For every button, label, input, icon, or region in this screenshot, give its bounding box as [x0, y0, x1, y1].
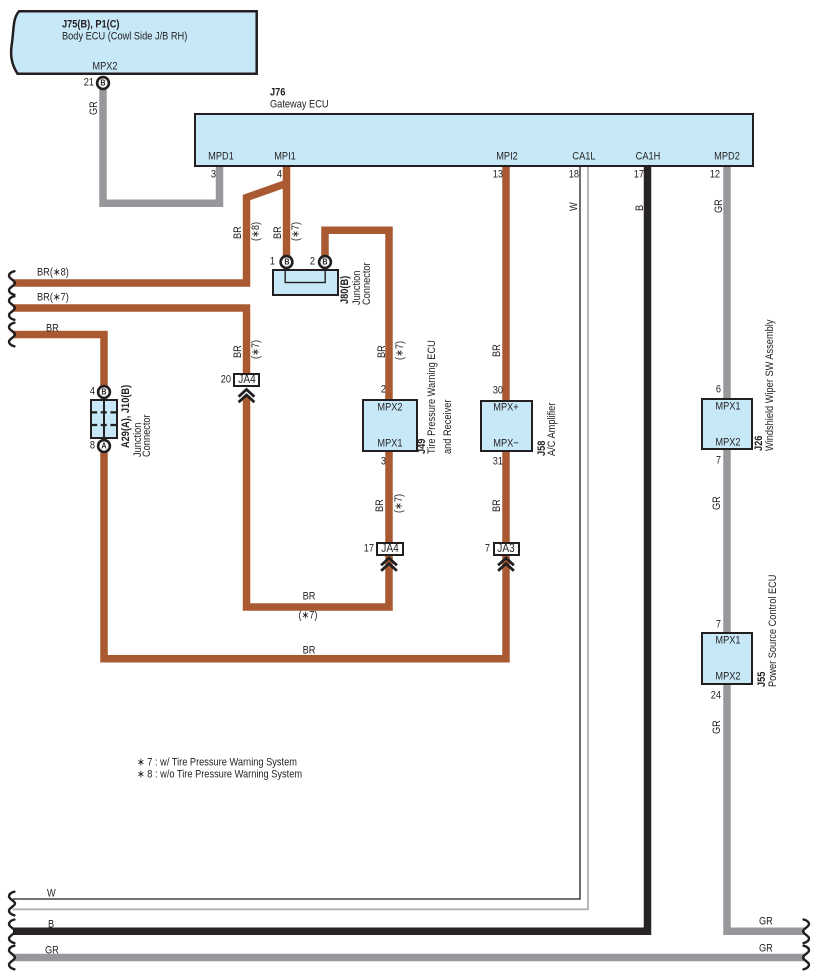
label GR rot mid	[712, 496, 723, 510]
label J58	[537, 440, 548, 455]
label (*8) rot	[251, 222, 262, 241]
label J76 pin 13	[493, 169, 503, 180]
wire B: J76 CA1H pin 17 to left edge	[13, 166, 648, 931]
letter B in pin 4 circle	[101, 387, 106, 398]
label BR	[46, 323, 59, 334]
pin 8 (A) of A29/J10	[98, 440, 110, 452]
label J76 terminal CA1L	[572, 151, 595, 162]
label J55	[757, 672, 768, 687]
label J49 MPX1	[377, 438, 402, 449]
label J76 pin 3	[210, 169, 215, 180]
label pin 24 J55	[711, 690, 721, 701]
label BR rot above JA4 20	[233, 345, 244, 358]
chevron below JA4 (20)	[239, 390, 255, 403]
ECU box J76 Gateway ECU	[194, 113, 754, 167]
pin 1 (B) of J80	[281, 256, 293, 268]
label JA4 (17)	[381, 543, 398, 555]
label J76	[270, 88, 285, 99]
wire W outline black: J76 CA1L pin 18 to left edge	[13, 166, 580, 899]
ECU block J75(B), P1(C) Body ECU (Cowl Side J/B RH)	[11, 11, 257, 73]
label W bottom	[47, 889, 56, 900]
label J55 MPX2	[715, 671, 740, 682]
ECU box J26 Windshield Wiper SW Assembly	[701, 398, 753, 450]
label BR loop JA4	[302, 592, 315, 603]
label pin 7 J55	[716, 619, 721, 630]
label BR(*8)	[37, 268, 69, 279]
label B bottom	[48, 919, 54, 930]
label (*7) loop JA4	[298, 611, 317, 622]
label pin 8	[90, 441, 95, 452]
wire BR(*7): left edge to JA4 (20)	[13, 308, 247, 375]
label BR rot pin13-J58	[492, 344, 503, 357]
label J76 pin 12	[709, 169, 719, 180]
label J75 title	[62, 20, 120, 31]
label J26	[754, 436, 765, 451]
label J26 MPX1	[715, 401, 740, 412]
pin 2 (B) of J80	[319, 256, 331, 268]
label JA3 (7)	[498, 543, 515, 555]
label pin 2 J49	[381, 385, 386, 396]
label J76 pin 18	[569, 169, 579, 180]
label (*7) rot	[291, 222, 302, 241]
note *7	[137, 757, 297, 768]
wire BR: J76 MPI2 pin 13 to J58 MPX+ pin 30	[502, 166, 510, 402]
label pin 21	[84, 78, 94, 89]
letter B in pin 21 circle	[100, 78, 105, 89]
label J76 terminal MPD2	[714, 151, 740, 162]
ECU box J49 Tire Pressure Warning ECU and Receiver	[362, 399, 418, 452]
ECU box J55 Power Source Control ECU	[701, 632, 754, 685]
letter B in pin 2 circle	[322, 257, 327, 268]
label J55 name	[768, 575, 779, 687]
wire BR: J49 MPX1 pin 3 to JA4 (17)	[385, 450, 393, 544]
label (*7) rot J80-J49	[395, 341, 406, 360]
label BR rot (*7 main)	[273, 226, 284, 239]
label J58 MPX-	[494, 438, 519, 449]
label BR loop JA3	[302, 645, 315, 656]
wire BR: left edge to A29/J10 pin 4	[13, 335, 104, 388]
note *8	[137, 770, 302, 781]
label J26 MPX2	[715, 437, 740, 448]
label J80 Connector	[362, 262, 373, 305]
chevron below JA3 (7)	[498, 558, 514, 571]
label BR(*7)	[37, 293, 69, 304]
wire BR: J80 pin 2 to J49 MPX2 pin 2	[325, 230, 389, 401]
label BR rot J49-JA4	[375, 499, 386, 512]
label J76 terminal CA1H	[636, 151, 661, 162]
label pin 17	[364, 544, 374, 555]
label W rot	[569, 202, 580, 211]
torn end W left	[9, 892, 15, 916]
label pin 6 J26	[716, 385, 721, 396]
pin 21 (B) of J75	[97, 77, 109, 89]
label J26 name	[765, 320, 776, 451]
letter A in pin 8 circle	[101, 441, 106, 452]
label (*7) rot above JA4 20	[251, 340, 262, 359]
wire GR: J75 pin 21 to J76 MPD1 pin 3	[103, 89, 220, 203]
label J75 MPX2	[92, 61, 117, 72]
label pin 2	[310, 257, 315, 268]
label J58 name	[547, 402, 558, 455]
label A29 Connector	[142, 414, 153, 457]
junction block JA4 (pin 20)	[233, 373, 260, 387]
torn end BR left	[9, 323, 15, 347]
label J76 pin 4	[276, 169, 281, 180]
junction connector A29(A) J10(B)	[90, 399, 118, 439]
wire GR: bottom full width	[13, 954, 805, 962]
label J49 MPX2	[377, 402, 402, 413]
label J80(B)	[340, 276, 351, 304]
torn end BR(*7) left	[9, 296, 15, 320]
label GR on J75 wire	[89, 101, 100, 115]
label J76 terminal MPI1	[274, 151, 296, 162]
J80 inner notch	[283, 270, 333, 290]
A29/J10 inner grid	[87, 397, 121, 443]
label GR rot top	[714, 199, 725, 213]
label BR rot J80-J49	[377, 345, 388, 358]
label J55 MPX1	[715, 636, 740, 647]
label pin 3 J49	[381, 456, 386, 467]
junction block JA4 (pin 17)	[376, 542, 404, 556]
label J58 MPX+	[494, 402, 519, 413]
label J75 name	[62, 31, 187, 42]
letter B in pin 1 circle	[284, 257, 289, 268]
label J49 name line1	[427, 340, 438, 454]
label GR right top	[759, 917, 773, 928]
label J76 terminal MPD1	[208, 151, 234, 162]
label B rot	[635, 204, 646, 210]
wire BR: A29/J10 pin 8 loop to JA3 (7)	[104, 452, 506, 659]
label A29 Junction	[133, 422, 144, 456]
label pin 31	[493, 456, 503, 467]
torn end GR bottom right	[803, 946, 809, 970]
torn end B left	[9, 920, 15, 944]
label pin 7 J26	[716, 455, 721, 466]
ECU box J58 A/C Amplifier	[480, 400, 533, 452]
label J76 terminal MPI2	[496, 151, 518, 162]
label J49	[417, 439, 428, 454]
wire GR: J76 MPD2 pin 12 through J26 and J55 to right edge	[727, 166, 805, 931]
label A29(A) J10(B)	[121, 385, 132, 448]
label GR bottom left	[45, 945, 59, 956]
label J80 Junction	[352, 271, 363, 305]
label JA4 (20)	[238, 374, 255, 386]
label (*7) rot J49-JA4	[394, 494, 405, 513]
label pin 20	[221, 375, 231, 386]
wire BR(*8): left edge to J76 pin 4 branch	[13, 183, 288, 283]
junction block JA3 (pin 7)	[493, 542, 521, 557]
label pin 4	[90, 387, 95, 398]
chevron below JA4 (17)	[381, 558, 397, 571]
label GR rot below J55	[712, 720, 723, 734]
label pin 7 JA3	[484, 544, 489, 555]
label J76 pin 17	[633, 169, 643, 180]
torn end BR(*8) left	[9, 271, 15, 295]
label GR right bottom	[759, 944, 773, 955]
wire BR: J58 MPX- pin 31 to JA3 (7)	[502, 450, 510, 544]
label BR rot J58-JA3	[492, 499, 503, 512]
wire BR(*7): JA4 (20) loop to JA4 (17)	[247, 396, 390, 607]
wire W outline gray: J76 CA1L pin 18 to left edge	[13, 166, 588, 909]
label pin 30	[493, 385, 503, 396]
wire BR: J76 MPI1 pin 4 to J80 pin 1	[283, 166, 291, 257]
junction connector J80(B)	[272, 269, 339, 296]
label BR rot (*8 branch)	[233, 226, 244, 239]
pin 4 (B) of A29/J10	[98, 386, 110, 398]
torn end GR bottom left	[9, 946, 15, 970]
torn end GR right	[803, 920, 809, 944]
label J49 name line2	[443, 400, 454, 454]
label Gateway ECU	[270, 99, 329, 110]
label pin 1	[270, 257, 275, 268]
